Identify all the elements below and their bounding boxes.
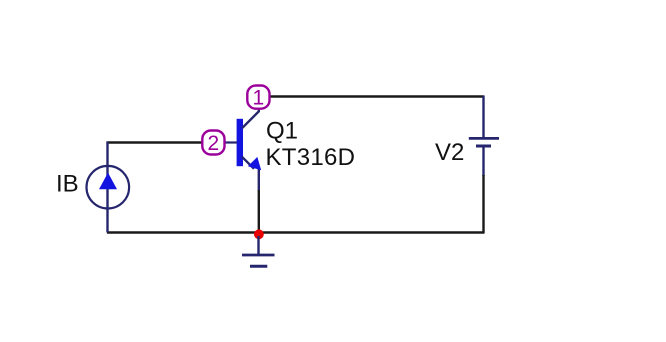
wire: right vertical upper (to battery top lead) <box>482 96 484 138</box>
ground <box>242 236 275 266</box>
wire: left vertical through current source <box>106 142 108 233</box>
transistor Q1 <box>224 108 261 170</box>
collector lead <box>242 108 259 128</box>
svg-text:KT316D: KT316D <box>266 144 356 171</box>
svg-text:Q1: Q1 <box>266 118 298 145</box>
battery V2 <box>469 138 499 146</box>
wire: emitter vertical to junction <box>258 168 260 191</box>
wire: right vertical lower (battery bottom lead + wire to bottom rail) <box>482 147 484 177</box>
base lead from pin 2 <box>224 141 237 143</box>
svg-text:1: 1 <box>253 87 265 110</box>
wire <box>258 190 260 232</box>
svg-text:IB: IB <box>56 171 79 198</box>
emitter arrowhead <box>248 157 261 170</box>
wire <box>482 175 484 234</box>
base bar <box>237 119 243 166</box>
current source IB <box>87 166 130 209</box>
svg-text:2: 2 <box>208 132 220 155</box>
node junction (red dot) <box>254 229 264 239</box>
wire: left horizontal from current source to pin 2 <box>107 141 204 143</box>
emitter lead <box>242 157 254 169</box>
pin 2 <box>202 131 224 156</box>
svg-text:V2: V2 <box>435 139 464 166</box>
wire: top collector wire from pin 1 to right vertical <box>268 95 484 97</box>
wire: bottom rail <box>107 231 484 233</box>
pin 1 <box>247 86 269 110</box>
